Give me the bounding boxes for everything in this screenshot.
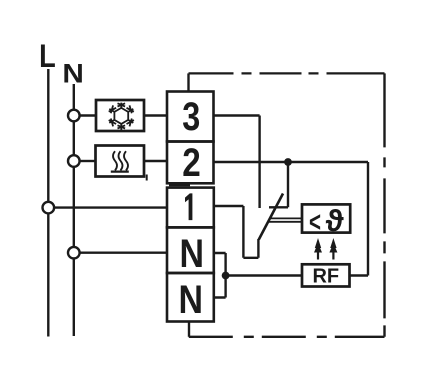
- terminal block box 2: [167, 142, 214, 184]
- svg-text:N: N: [62, 58, 84, 88]
- wire terminal N lower to enclosure bottom: [188, 322, 190, 337]
- svg-text:3: 3: [182, 95, 200, 139]
- terminal block box 1: [167, 188, 214, 228]
- enclosure stub top: [187, 73, 189, 91]
- wire terminal 2 to right bus: [214, 161, 369, 163]
- wire row1 N to cooling box: [80, 114, 96, 116]
- wire junction down to break contact: [269, 162, 288, 207]
- terminal block box 3: [167, 92, 214, 142]
- svg-text:N: N: [180, 232, 205, 276]
- wire row2 N to heating box: [80, 160, 96, 162]
- node circle N row2: [68, 155, 80, 167]
- junction dot on terminal 2 wire: [284, 158, 292, 166]
- node circle N row4: [68, 247, 80, 259]
- svg-text:RF: RF: [312, 266, 339, 288]
- terminal block box N lower: [167, 273, 214, 322]
- enclosure boundary top dash-dot: [189, 72, 385, 74]
- wire L vertical: [47, 69, 49, 337]
- wire N jumper bracket: [214, 253, 226, 298]
- node circle N row1: [68, 110, 80, 122]
- wire N to terminal N: [80, 251, 167, 253]
- enclosure dash between terminal 2 and 1: [169, 184, 190, 186]
- cooling icon snowflake: [109, 103, 134, 131]
- wire L to terminal 1: [54, 206, 167, 208]
- enclosure boundary right dash-dot: [383, 73, 385, 336]
- switch blade: [259, 194, 283, 240]
- node circle L row3: [43, 202, 55, 214]
- enclosure stray dash left: [146, 175, 148, 181]
- wire N to RF box: [226, 274, 302, 276]
- svg-text:N: N: [179, 278, 204, 322]
- wire cooling box to terminal 3: [144, 114, 167, 116]
- terminal block box N upper: [167, 227, 214, 273]
- enclosure boundary bottom dash-dot: [189, 336, 385, 338]
- thermostat box U1: [302, 204, 350, 232]
- heating icon wavy lines: [111, 151, 129, 171]
- RF signal arrow right: [332, 246, 334, 260]
- RF receiver box: [302, 264, 350, 286]
- wire terminal 3 to switch contact: [214, 116, 260, 209]
- terminal label 1: [185, 193, 192, 220]
- wire RF box to right bus: [350, 162, 369, 276]
- junction dot on N bracket: [222, 272, 230, 280]
- wire terminal 1 to switch pivot: [214, 206, 259, 258]
- cooling load box: [96, 100, 144, 131]
- svg-text:ϑ: ϑ: [326, 203, 345, 238]
- linkage double line to thermostat: [269, 218, 303, 221]
- wire N vertical: [73, 84, 75, 336]
- heating load box: [96, 146, 145, 177]
- svg-text:<: <: [309, 207, 321, 239]
- RF signal arrow left: [317, 246, 319, 260]
- svg-text:2: 2: [182, 141, 201, 185]
- wire heating box to terminal 2: [144, 160, 167, 162]
- svg-text:L: L: [39, 38, 56, 74]
